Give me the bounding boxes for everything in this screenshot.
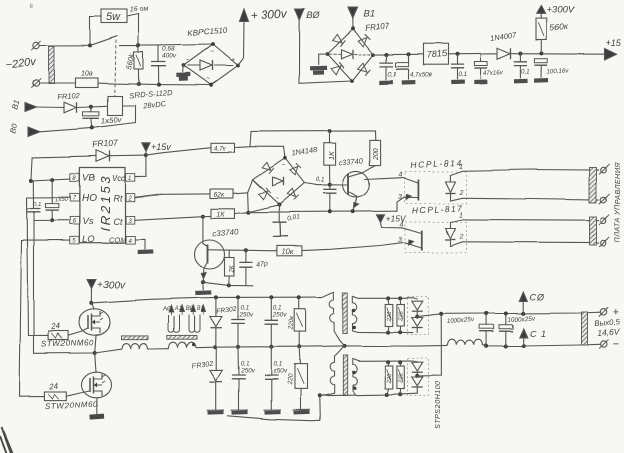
svg-text:1: 1 (459, 212, 463, 219)
arrow C0 (519, 292, 527, 301)
capacitor 0.1 after 7815 (450, 65, 463, 69)
node bridge2 right (371, 53, 375, 57)
node 560k top (137, 44, 141, 48)
svg-text:2: 2 (459, 190, 464, 197)
IC pin boxes right 1 2 3 4 (126, 174, 135, 182)
capacitor 1x50v relay (83, 112, 99, 116)
resistor 10k (277, 246, 302, 256)
resistor 62k (210, 189, 233, 198)
svg-text:10а: 10а (81, 71, 93, 78)
svg-text:ПЛАТА УПРАВЛЕНИЯ: ПЛАТА УПРАВЛЕНИЯ (613, 162, 622, 242)
svg-text:250v: 250v (239, 312, 255, 319)
capacitor 47x16v (474, 62, 487, 66)
ground bar bridge2 (310, 66, 327, 71)
svg-text:+15v: +15v (151, 142, 171, 152)
capacitor 47p (239, 262, 252, 267)
wire T1 to FR302 node (196, 346, 215, 349)
node bootstrap ecap top (50, 178, 54, 182)
HCPL1 LED (446, 182, 456, 193)
T1 primary winding B (189, 315, 200, 332)
transistor Q2t C33740 (343, 171, 369, 197)
wire Q1 source (95, 335, 96, 352)
capacitor 4.7x50v (395, 63, 408, 67)
svg-text:Ct: Ct (113, 217, 122, 227)
resistor 220k upper (294, 309, 305, 332)
svg-text:+ 300v: + 300v (250, 7, 288, 23)
svg-text:400v: 400v (163, 53, 178, 60)
transistor Q2 STW20NM60 (82, 372, 112, 398)
diode FR302 upper (210, 317, 222, 327)
wire bridge2 out to 7815 (373, 53, 424, 55)
svg-text:Rt: Rt (113, 194, 122, 204)
svg-text:1: 1 (459, 164, 463, 171)
wire T2 secondary top (352, 296, 413, 298)
wire 62k right (233, 192, 248, 193)
svg-text:0,1: 0,1 (241, 305, 250, 312)
svg-text:10к: 10к (282, 247, 294, 256)
core bar T3 (343, 355, 347, 396)
connector bar output (582, 312, 588, 345)
diode 1N4007 (497, 48, 510, 59)
connector bar control 2 (590, 217, 597, 246)
diode STPS upper2 (412, 318, 423, 327)
wire B1 to FR102 (37, 106, 65, 109)
transformer T3 secondary (352, 358, 357, 391)
svg-text:220к: 220к (287, 315, 295, 331)
wire 5w left lead (90, 17, 102, 46)
wire emitter to pin3b (405, 243, 422, 248)
svg-text:62к: 62к (214, 192, 226, 199)
resistor 4.7k (211, 143, 235, 152)
svg-text:-: - (187, 55, 190, 64)
arrow B0 input left (29, 127, 41, 137)
wire C0 stem (522, 302, 524, 314)
arrow B1 top (348, 7, 358, 19)
capacitor 0.1 250v a (231, 320, 245, 324)
bridge3 edge diodes (262, 162, 274, 173)
svg-text:220: 220 (398, 372, 404, 384)
bridge 1N4148 diamond (253, 158, 304, 204)
wire to control board 4 (463, 241, 599, 244)
node C0.1a (384, 53, 388, 57)
wire switch to bridge top (120, 45, 214, 46)
capacitor 0.1 bootstrap (28, 209, 41, 212)
resistor 1K pullup (324, 143, 336, 165)
wire Q1t collector (208, 249, 246, 252)
svg-text:3: 3 (399, 194, 403, 201)
dashed relay actuation link (115, 40, 116, 96)
svg-text:~: ~ (275, 196, 279, 202)
svg-text:STW20NM60: STW20NM60 (45, 400, 98, 411)
node C0.1b (455, 52, 459, 56)
ground bar 220k lower (293, 409, 311, 411)
connector bar control 1 (590, 168, 597, 203)
wire 560k bottom lead (138, 69, 140, 84)
svg-text:220: 220 (387, 372, 393, 384)
ground 0.1b (451, 80, 465, 85)
svg-text:FR102: FR102 (57, 91, 81, 102)
svg-text:~: ~ (210, 49, 214, 56)
transformer T2 secondary (352, 296, 357, 331)
transformer T2 primary (330, 292, 335, 331)
ground 100x16 (534, 78, 548, 83)
wire B1 to bridge2 top (352, 19, 354, 29)
arrow +300V right (537, 6, 546, 14)
svg-text:24: 24 (50, 322, 61, 332)
wire T3 secondary bottom (320, 393, 418, 396)
svg-text:LO: LO (82, 234, 95, 245)
svg-text:4,7х50в: 4,7х50в (410, 72, 433, 79)
wire 560k top lead (138, 46, 140, 52)
wire LED2 anode to pin1b (451, 220, 463, 223)
ground 47x16 (474, 80, 488, 85)
resistor 220 snubber d (397, 366, 404, 389)
wire bridge2 to ground (319, 54, 327, 65)
wire to 0.01 (278, 205, 280, 222)
node 220k1 top (297, 295, 301, 299)
resistor 220 snubber a (385, 304, 393, 326)
wire bottom return line (228, 396, 321, 421)
svg-text:4: 4 (400, 222, 404, 229)
relay SRD-S-112D coil (108, 96, 123, 116)
svg-text:1К: 1К (217, 211, 226, 218)
wire emitter bottom line (203, 282, 253, 286)
svg-text:Vcc: Vcc (112, 174, 125, 183)
wire plus rail (441, 312, 600, 314)
resistor 220 snubber b (397, 304, 404, 326)
wire +15V to pin4b (381, 223, 402, 228)
resistor 200 collector (370, 140, 381, 165)
svg-text:BØ: BØ (185, 307, 194, 313)
wire relay return to B0 (41, 106, 136, 132)
HCPL2 emitter arrow (409, 240, 414, 245)
transistor Q1 STW20NM60 (79, 309, 110, 335)
optocoupler U3 HCPL-817 dashed outline (405, 222, 467, 253)
arrows A0 A1 B0 B1 primary taps (169, 306, 173, 312)
wire FR102 to relay (78, 106, 109, 107)
wire Q2 drain (95, 353, 96, 372)
wire C1 stem (522, 338, 524, 347)
svg-text:1: 1 (128, 176, 131, 182)
wire to bridge3 left (248, 180, 253, 193)
polarity dot T3b (352, 386, 356, 390)
capacitor 0.1 250v c (232, 376, 246, 380)
ground bar FR302 lower (207, 409, 224, 411)
terminal control wire (601, 167, 607, 173)
wire Q2 source (96, 397, 98, 414)
svg-text:AØ: AØ (162, 307, 172, 313)
wire Q1 drain (92, 303, 95, 309)
node cap251 top (236, 295, 240, 299)
diode FR302 lower (209, 370, 222, 381)
polarity dot T2b (352, 325, 356, 329)
svg-text:0,1: 0,1 (458, 72, 467, 79)
svg-text:250v: 250v (272, 312, 288, 319)
svg-text:COM: COM (109, 235, 127, 244)
wire L1 to T1 (148, 347, 169, 349)
wire 5w right lead (127, 14, 139, 46)
wire bridge3 right to base node (304, 183, 330, 185)
capacitor 0.68uF 400v (151, 62, 166, 66)
node +300v rail (90, 301, 94, 305)
node B (246, 210, 250, 214)
svg-text:0,1: 0,1 (241, 361, 250, 368)
Q2t emitter arrow (354, 203, 359, 208)
node emitter bottom (201, 280, 205, 284)
wire FR302a cathode (215, 328, 217, 348)
node half-bridge midpoint (93, 351, 97, 355)
wire LED anode to pin1 (450, 171, 462, 175)
terminal control wire (601, 240, 607, 246)
svg-text:+: + (231, 57, 235, 64)
HCPL1 emitter arrow (407, 195, 412, 200)
node 1K pullup top (328, 129, 332, 133)
resistor 24 gate Q1 (49, 331, 69, 340)
node VB left (29, 179, 33, 183)
bridge rectifier KBPC1510 diamond (184, 45, 238, 86)
polarity dot T3a (352, 370, 356, 374)
wire LED2 cathode to pin2b (451, 240, 463, 247)
wire 1K to Q2t base (329, 165, 331, 185)
node T2 T3 primary junction (343, 344, 347, 348)
wire pin4 to collector (403, 178, 419, 184)
arrow +15V opto (377, 215, 385, 223)
IC pin boxes left 8 7 6 5 (70, 173, 79, 181)
wire bridge minus to ground (183, 66, 184, 72)
resistor 220k lower (295, 364, 308, 389)
svg-text:+15V: +15V (386, 214, 407, 224)
wire T3 primary bottom (320, 393, 334, 396)
svg-text:4,7к: 4,7к (214, 146, 227, 153)
svg-text:+15: +15 (606, 38, 622, 48)
svg-text:z50v: z50v (273, 368, 288, 375)
svg-text:0,1: 0,1 (273, 305, 282, 312)
svg-text:0,68: 0,68 (163, 46, 176, 53)
wire 7815 out (448, 53, 497, 56)
svg-text:250v: 250v (240, 368, 256, 375)
IC U1 IR2153 body (79, 168, 125, 243)
wire T2 secondary bottom (353, 330, 414, 332)
node bridge2 top (351, 27, 355, 31)
resistor 5w 16om ballast (101, 10, 127, 24)
wire HO to Q1 gate (27, 197, 70, 335)
svg-text:C 1: C 1 (530, 329, 547, 339)
wire 1N4007 to +15 out (511, 53, 606, 56)
svg-text:1x50v: 1x50v (101, 115, 123, 125)
core bar L1 (122, 335, 149, 339)
svg-text:CØ: CØ (530, 293, 546, 303)
svg-text:24: 24 (48, 381, 59, 391)
diode STPS upper1 (412, 301, 423, 310)
svg-text:220: 220 (398, 310, 404, 322)
terminal output plus (600, 309, 606, 315)
node bridge2 left (325, 52, 329, 56)
HCPL2 phototransistor (421, 231, 423, 251)
capacitor 0.1 output (514, 62, 527, 66)
resistor 560k dropper (536, 19, 547, 40)
node C0.1c (518, 52, 522, 56)
ground 0.1a (379, 80, 393, 85)
wire node A to Q1t base (202, 216, 204, 243)
capacitor 1000x25v b (499, 325, 513, 329)
HCPL2 LED (446, 228, 456, 239)
wire Ct to node A (135, 216, 203, 220)
node T3 rectifier tap (415, 374, 419, 378)
node 47p top (244, 248, 248, 252)
wire FR302b cathode (215, 382, 217, 410)
node bridge3 bottom (277, 203, 281, 207)
svg-text:VB: VB (82, 173, 95, 184)
svg-text:0,1: 0,1 (34, 202, 42, 208)
ground 0.1c (514, 79, 528, 84)
wire T3 secondary top (352, 358, 413, 360)
node T2 rectifier tap (415, 315, 419, 319)
svg-text:100,16v: 100,16v (546, 67, 569, 75)
wire pin4b to collector (402, 228, 422, 234)
wire Rt to 62k (135, 193, 210, 197)
node switch pole (88, 43, 92, 47)
svg-text:14,6V: 14,6V (597, 326, 621, 338)
wire gate Q1 (68, 328, 88, 335)
capacitor 100x16v (534, 59, 547, 63)
terminal output minus (601, 341, 607, 347)
ground bar cap c (231, 409, 249, 411)
wire +15v to 4.7k (146, 148, 211, 155)
arrow +15 output (605, 49, 617, 61)
svg-text:STPS20H100: STPS20H100 (433, 381, 442, 429)
wire midpoint to L1 (95, 349, 122, 353)
core bar T1 (167, 335, 197, 339)
svg-text:HO: HO (82, 193, 97, 204)
wire T2 tap to plus rail (417, 314, 441, 317)
HCPL1 phototransistor (418, 180, 420, 201)
resistor 1k timing (211, 209, 235, 219)
resistor 24 gate Q2 (45, 392, 67, 401)
resistor 2k emitter (225, 258, 235, 277)
inductor output choke (448, 340, 483, 346)
svg-text:2: 2 (127, 196, 132, 202)
wire to signal ground (202, 285, 204, 290)
svg-text:A1: A1 (173, 307, 181, 313)
terminal control wire (601, 217, 607, 223)
transistor Q1t C33740 (195, 240, 225, 269)
terminal AC N (33, 80, 39, 86)
wire VB to pin8 (31, 179, 70, 181)
wire to control board 1 (462, 170, 599, 171)
T1 primary winding A (168, 315, 179, 332)
svg-text:7815: 7815 (426, 48, 448, 60)
svg-text:~: ~ (281, 163, 285, 169)
wire top bus to bridge3 apex (250, 147, 285, 159)
wire top bus to 200 (375, 131, 377, 141)
ground COM (138, 249, 154, 254)
wire B0 to bridge2 bottom (300, 20, 353, 83)
wire bus up to HCPL1 pin3 (398, 197, 405, 211)
wire mid rail (215, 346, 415, 347)
node Q2t base (328, 183, 332, 187)
capacitor 0.1 250v d (265, 376, 279, 380)
node C4.7 (407, 52, 411, 56)
diode FR107 supply (96, 150, 109, 161)
wire AC L to switch (39, 44, 90, 46)
node cap252 top (269, 295, 273, 299)
wire 200 to Q2t collector (363, 166, 375, 173)
wire FR302b anode (215, 347, 217, 370)
svg-text:560к: 560к (549, 21, 569, 33)
capacitor 0.1 base (323, 189, 336, 193)
svg-text:B1: B1 (364, 9, 376, 20)
ground bar bridge (176, 72, 190, 77)
svg-text:+300V: +300V (547, 5, 576, 16)
svg-text:47х16v: 47х16v (483, 69, 504, 77)
wire emitter bus (248, 211, 397, 212)
wire emitter to pin3 (405, 196, 419, 198)
resistor 560k bleeder (134, 52, 143, 69)
Q1t emitter arrow (201, 273, 206, 279)
wire COM to ground (135, 239, 145, 249)
svg-text:0,1: 0,1 (274, 361, 283, 368)
arrow B1 input left (25, 103, 37, 112)
wire FR302a anode (215, 297, 217, 316)
wire Q2t emitter (349, 192, 358, 212)
node bridge2 bottom (350, 79, 354, 83)
wire minus rail (483, 344, 600, 346)
connector bar AC input (49, 46, 55, 84)
svg-text:B1: B1 (197, 307, 204, 313)
scan artifact bottom-left corner (0, 427, 13, 453)
resistor 10a inrush (76, 78, 99, 88)
node A (201, 214, 205, 218)
svg-text:2К: 2К (230, 265, 236, 273)
wire 10k to HCPL2 pin3 (302, 243, 403, 251)
svg-text:220: 220 (387, 310, 393, 322)
ground bar Q2 source (89, 414, 104, 420)
svg-text:−: − (613, 339, 620, 351)
wire +300v rail (92, 292, 334, 303)
svg-text:0,1: 0,1 (316, 177, 325, 184)
capacitor 0.01 (273, 222, 289, 236)
svg-text:BØ: BØ (307, 10, 321, 20)
core bar T2 (343, 293, 347, 334)
wire to FR107 anode (33, 156, 96, 158)
capacitor 0.1 before 7815 (379, 63, 392, 67)
bridge2 edge diodes (332, 34, 345, 46)
switch SW1 blade (91, 36, 117, 45)
inductor T1 lower winding (169, 342, 196, 348)
arrow +300v bus (88, 280, 97, 289)
wire T3 tap to plus rail (417, 314, 441, 376)
node B0 relay (90, 126, 94, 130)
arrow +300v top (240, 9, 249, 22)
terminal AC L (33, 42, 39, 48)
wire 62k to node B (247, 192, 250, 212)
wire AC N to 10ohm (39, 82, 75, 84)
diode STPS lower1 (412, 362, 423, 371)
arrow C1 (519, 329, 527, 338)
resistor 220 snubber c (385, 366, 393, 389)
node mid rail FR302 (213, 345, 217, 349)
svg-text:IR2153: IR2153 (98, 174, 113, 231)
arrow +15v feed (142, 143, 150, 152)
wire +15v to Vcc pin1 (135, 155, 146, 177)
svg-text:STW20NM60: STW20NM60 (41, 338, 94, 349)
wire node B to bridge3 bottom (248, 205, 279, 212)
node 560k2 (539, 51, 543, 55)
terminal control wire (601, 197, 607, 203)
svg-text:Vs: Vs (82, 216, 93, 227)
capacitor 1x50 bootstrap (46, 204, 59, 208)
node plus rail left (439, 312, 443, 316)
